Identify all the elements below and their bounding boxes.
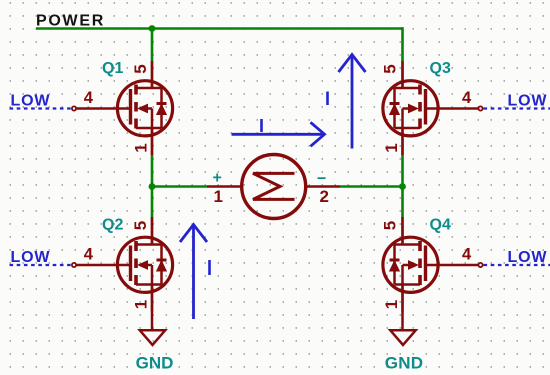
transistor Q3 <box>383 61 483 155</box>
svg-text:5: 5 <box>131 64 150 73</box>
wire Q1 source to mid-left node <box>151 155 154 187</box>
svg-text:Q1: Q1 <box>102 60 123 77</box>
svg-text:4: 4 <box>462 89 472 107</box>
svg-text:POWER: POWER <box>36 13 105 30</box>
svg-text:GND: GND <box>385 353 423 372</box>
junction mid-left node <box>149 183 156 190</box>
current label I horizontal <box>260 119 263 132</box>
current arrow right vertical <box>339 55 366 149</box>
wire mid-left node to motor pin 1 <box>152 185 207 188</box>
wire motor pin 2 to mid-right node <box>340 185 403 188</box>
wire Q1 drain to POWER <box>151 29 154 62</box>
svg-text:4: 4 <box>462 246 472 264</box>
svg-text:Q4: Q4 <box>430 217 451 234</box>
wire POWER rail <box>36 27 403 30</box>
svg-text:4: 4 <box>84 246 94 264</box>
motor M1 (sigma symbol) <box>207 155 340 219</box>
svg-text:−: − <box>317 171 326 188</box>
svg-text:LOW: LOW <box>11 249 51 266</box>
svg-text:1: 1 <box>131 300 150 309</box>
wire Q3 source to mid-right node <box>401 155 404 187</box>
svg-text:Q3: Q3 <box>430 60 451 77</box>
dashed leader upper-right <box>484 107 550 109</box>
current arrow left vertical <box>180 225 207 320</box>
wire Q3 drain to POWER <box>401 27 404 61</box>
svg-text:4: 4 <box>84 89 94 107</box>
svg-text:1: 1 <box>214 187 223 206</box>
current arrow horizontal <box>232 122 325 146</box>
dashed leader lower-right <box>484 264 550 266</box>
svg-text:5: 5 <box>380 64 399 73</box>
svg-text:Q2: Q2 <box>102 217 123 234</box>
svg-text:1: 1 <box>382 143 401 152</box>
svg-text:LOW: LOW <box>11 92 51 109</box>
svg-text:LOW: LOW <box>508 249 548 266</box>
transistor Q1 <box>72 61 173 155</box>
transistor Q2 <box>72 217 173 312</box>
junction mid-right node <box>399 183 406 190</box>
svg-text:+: + <box>213 170 222 187</box>
svg-text:GND: GND <box>136 353 174 372</box>
svg-text:2: 2 <box>320 187 329 206</box>
ground symbol left <box>140 312 165 346</box>
current label I right <box>326 92 329 106</box>
transistor Q4 <box>383 217 483 312</box>
ground symbol right <box>390 312 415 346</box>
svg-text:LOW: LOW <box>508 92 548 109</box>
dashed leader upper-left <box>10 107 72 109</box>
svg-text:5: 5 <box>131 221 150 230</box>
wire Q2 drain to mid-left node <box>151 187 154 218</box>
svg-text:5: 5 <box>380 221 399 230</box>
current label I left <box>208 260 211 275</box>
svg-text:1: 1 <box>382 300 401 309</box>
wire Q4 drain to mid-right node <box>401 187 404 218</box>
junction on POWER rail <box>149 25 156 32</box>
svg-text:1: 1 <box>131 143 150 152</box>
dashed leader lower-left <box>10 264 72 266</box>
